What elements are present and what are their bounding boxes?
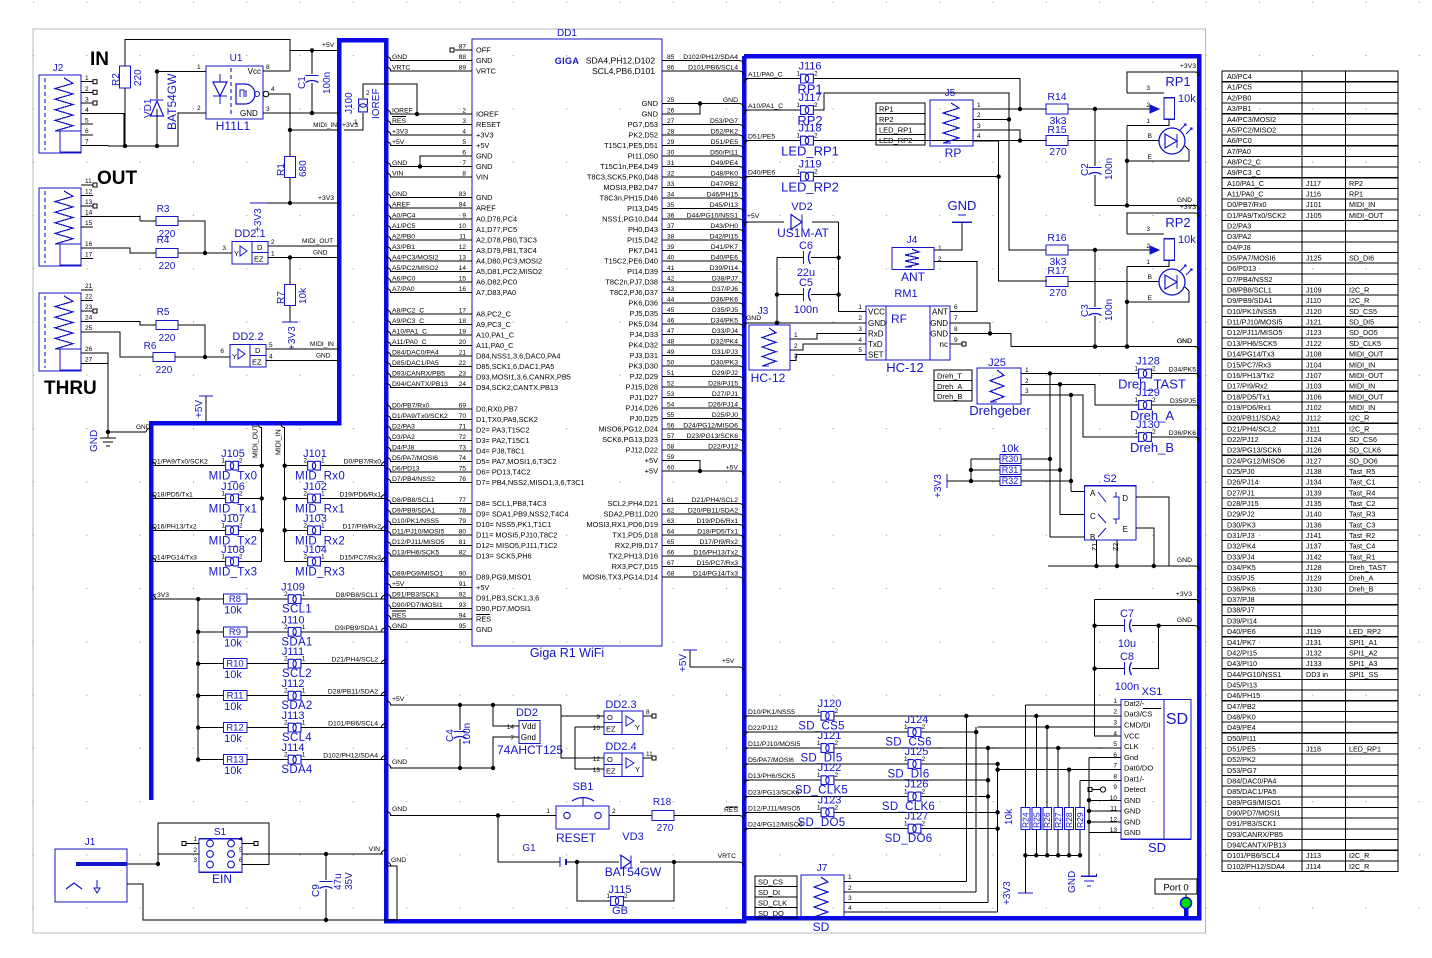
svg-text:T15C2,PE6,D40: T15C2,PE6,D40 bbox=[604, 257, 658, 266]
svg-text:Detect: Detect bbox=[1124, 785, 1147, 794]
svg-text:A0,D76,PC4: A0,D76,PC4 bbox=[476, 215, 517, 224]
svg-text:NSS1,PG10,D44: NSS1,PG10,D44 bbox=[602, 215, 658, 224]
svg-text:3: 3 bbox=[1113, 720, 1117, 727]
U1 pin4 wire bbox=[263, 91, 269, 97]
svg-text:C9: C9 bbox=[311, 884, 322, 897]
svg-text:D42/PI15: D42/PI15 bbox=[1227, 648, 1257, 657]
svg-text:56: 56 bbox=[667, 423, 675, 430]
svg-text:J4: J4 bbox=[907, 235, 918, 246]
svg-text:14: 14 bbox=[85, 209, 93, 216]
svg-text:D84,NSS1,3,6,DAC0,PA4: D84,NSS1,3,6,DAC0,PA4 bbox=[476, 352, 561, 361]
svg-text:D43/PI10: D43/PI10 bbox=[1227, 659, 1257, 668]
svg-text:R9: R9 bbox=[229, 627, 241, 638]
svg-text:A9/PC3_C: A9/PC3_C bbox=[1227, 168, 1261, 177]
svg-text:4: 4 bbox=[239, 836, 243, 843]
svg-text:D14/PG14/Tx3: D14/PG14/Tx3 bbox=[1227, 350, 1275, 359]
svg-text:D12/PJ11/MISO5: D12/PJ11/MISO5 bbox=[1227, 328, 1282, 337]
svg-text:EZ: EZ bbox=[252, 358, 262, 367]
+3V3 symbol bbox=[250, 202, 267, 204]
DD2.4 wires bbox=[561, 716, 604, 758]
svg-text:10k: 10k bbox=[298, 287, 309, 304]
svg-text:PJ5,D35: PJ5,D35 bbox=[630, 309, 658, 318]
DD1 pin 80 D11= MOSI5,PJ10,T8C2 bbox=[390, 534, 472, 536]
svg-text:44: 44 bbox=[667, 297, 675, 304]
svg-text:78: 78 bbox=[459, 508, 467, 515]
svg-text:14: 14 bbox=[459, 265, 467, 272]
svg-text:D1,TX0,PA9,SCK2: D1,TX0,PA9,SCK2 bbox=[476, 415, 538, 424]
svg-text:GND: GND bbox=[1067, 871, 1078, 893]
LED LED2 cathode wire bbox=[1127, 287, 1189, 302]
svg-text:D30/PK3: D30/PK3 bbox=[1227, 520, 1256, 529]
svg-text:J106: J106 bbox=[1306, 392, 1322, 401]
svg-text:D45/PI13: D45/PI13 bbox=[1227, 680, 1257, 689]
svg-text:2: 2 bbox=[1146, 243, 1150, 250]
svg-text:MIDI_IN: MIDI_IN bbox=[310, 341, 334, 348]
jumper J101 MID_Rx0 bbox=[308, 461, 316, 470]
jumper J123 SD_DO5 bbox=[744, 812, 749, 816]
svg-text:R31: R31 bbox=[1002, 465, 1019, 475]
svg-text:T15C1,PE5,D51: T15C1,PE5,D51 bbox=[604, 141, 658, 150]
svg-text:25: 25 bbox=[667, 97, 675, 104]
svg-text:Gnd: Gnd bbox=[1124, 753, 1138, 762]
GND net RF bbox=[744, 323, 749, 327]
svg-text:GND: GND bbox=[136, 424, 151, 431]
Port 0 label bbox=[1155, 879, 1197, 894]
svg-text:PK3,D30: PK3,D30 bbox=[628, 362, 658, 371]
svg-text:J3: J3 bbox=[758, 306, 769, 317]
svg-text:3: 3 bbox=[266, 106, 270, 113]
svg-text:45: 45 bbox=[667, 307, 675, 314]
svg-text:9: 9 bbox=[1113, 784, 1117, 791]
svg-text:J109: J109 bbox=[281, 582, 305, 594]
svg-text:Y: Y bbox=[635, 723, 640, 732]
diode VD1 BAT54GW bbox=[151, 101, 164, 116]
svg-text:IOREF: IOREF bbox=[476, 110, 499, 119]
svg-text:+5V: +5V bbox=[392, 696, 405, 703]
svg-text:A10/PA1_C: A10/PA1_C bbox=[1227, 179, 1264, 188]
svg-text:D94,SCK2,CANTX,PB13: D94,SCK2,CANTX,PB13 bbox=[476, 383, 558, 392]
svg-text:4: 4 bbox=[1113, 730, 1117, 737]
DD1 pin 13 A4,D80,PC3,MOSI2 bbox=[390, 260, 472, 262]
wire R14 out RP2 bbox=[1068, 249, 1157, 251]
DD1 pin 22 D85,SCK1,6,DAC1,PA5 bbox=[390, 366, 472, 368]
svg-text:T8C3n,PH15,D46: T8C3n,PH15,D46 bbox=[600, 194, 658, 203]
svg-text:C: C bbox=[1090, 512, 1096, 521]
svg-text:2: 2 bbox=[462, 108, 466, 115]
svg-text:PJ12,D22: PJ12,D22 bbox=[626, 446, 658, 455]
wire R14 out RP1 bbox=[1068, 108, 1157, 110]
svg-text:4: 4 bbox=[85, 107, 89, 114]
svg-text:T8C3,SCK5,PK0,D48: T8C3,SCK5,PK0,D48 bbox=[587, 173, 658, 182]
svg-text:ANT: ANT bbox=[932, 308, 948, 317]
DD1 pin 10 A1,D77,PC5 bbox=[390, 229, 472, 231]
svg-text:+5V: +5V bbox=[476, 583, 489, 592]
+5V rail for DD2 bbox=[390, 704, 561, 706]
svg-text:GND: GND bbox=[89, 430, 100, 452]
svg-text:D19/PD6/Rx1: D19/PD6/Rx1 bbox=[339, 491, 381, 498]
svg-text:J127: J127 bbox=[905, 811, 929, 823]
svg-text:AREF: AREF bbox=[392, 202, 410, 209]
svg-text:D90/PD7/MOSI1: D90/PD7/MOSI1 bbox=[392, 602, 443, 609]
svg-text:28: 28 bbox=[667, 129, 675, 136]
svg-text:D29/PJ2: D29/PJ2 bbox=[1227, 510, 1255, 519]
svg-text:GB: GB bbox=[612, 905, 628, 917]
svg-text:D89,PG9,MISO1: D89,PG9,MISO1 bbox=[476, 573, 531, 582]
svg-text:3: 3 bbox=[977, 123, 981, 130]
svg-text:Dreh_B: Dreh_B bbox=[1349, 584, 1374, 593]
svg-text:SDA4,PH12,D102: SDA4,PH12,D102 bbox=[586, 56, 655, 66]
DD1 pin 95 GND bbox=[390, 629, 472, 631]
svg-text:A5/PC2/MISO2: A5/PC2/MISO2 bbox=[392, 265, 439, 272]
svg-text:RES: RES bbox=[476, 615, 491, 624]
svg-text:94: 94 bbox=[459, 613, 467, 620]
svg-text:SPI1_SS: SPI1_SS bbox=[1349, 670, 1378, 679]
svg-text:J108: J108 bbox=[221, 544, 245, 556]
svg-text:D12/PJ11/MISO5: D12/PJ11/MISO5 bbox=[748, 805, 801, 812]
svg-text:D14/PG14/Tx3: D14/PG14/Tx3 bbox=[152, 555, 197, 562]
svg-text:J2: J2 bbox=[53, 63, 64, 74]
module boundary J100 strip bbox=[339, 38, 386, 43]
wire J2 pin7 bbox=[93, 145, 108, 148]
svg-text:8: 8 bbox=[266, 64, 270, 71]
svg-text:PK5,D34: PK5,D34 bbox=[628, 320, 658, 329]
svg-text:Drehgeber: Drehgeber bbox=[969, 403, 1031, 418]
svg-text:J105: J105 bbox=[221, 448, 245, 460]
svg-text:D4/PJ8: D4/PJ8 bbox=[1227, 243, 1251, 252]
svg-text:J107: J107 bbox=[221, 513, 245, 525]
svg-text:91: 91 bbox=[459, 581, 467, 588]
svg-text:24: 24 bbox=[85, 315, 93, 322]
svg-text:D9/PB9/SDA1: D9/PB9/SDA1 bbox=[392, 508, 435, 515]
DD1 pin 9 A0,D76,PC4 bbox=[390, 218, 472, 220]
svg-text:D4/PJ8: D4/PJ8 bbox=[392, 445, 415, 452]
svg-text:J125: J125 bbox=[905, 746, 929, 758]
svg-text:D11= MOSI5,PJ10,T8C2: D11= MOSI5,PJ10,T8C2 bbox=[476, 531, 557, 540]
svg-text:J126: J126 bbox=[905, 779, 929, 791]
svg-text:SCL4,PB6,D101: SCL4,PB6,D101 bbox=[592, 66, 655, 76]
svg-text:DD2.4: DD2.4 bbox=[605, 741, 636, 753]
svg-text:D25/PJ0: D25/PJ0 bbox=[712, 412, 738, 419]
svg-text:D43/PH0: D43/PH0 bbox=[710, 223, 738, 230]
svg-text:GND: GND bbox=[476, 152, 492, 161]
svg-text:J109: J109 bbox=[1306, 286, 1322, 295]
svg-text:GND: GND bbox=[642, 99, 658, 108]
svg-text:+5V: +5V bbox=[678, 654, 689, 672]
svg-text:8: 8 bbox=[462, 171, 466, 178]
svg-text:MISO6,PG12,D24: MISO6,PG12,D24 bbox=[598, 425, 658, 434]
svg-text:D37/PJ6: D37/PJ6 bbox=[712, 286, 738, 293]
svg-text:D21/PH4/SCL2: D21/PH4/SCL2 bbox=[1227, 424, 1276, 433]
RESET wires bbox=[390, 815, 556, 817]
svg-text:D89/PG9/MISO1: D89/PG9/MISO1 bbox=[1227, 798, 1281, 807]
svg-text:D19/PD6/Rx1: D19/PD6/Rx1 bbox=[1227, 403, 1271, 412]
jumper J114 SDA4 bbox=[288, 755, 296, 764]
svg-text:11: 11 bbox=[85, 178, 92, 185]
svg-text:D11/PJ10/MOSI5: D11/PJ10/MOSI5 bbox=[1227, 318, 1282, 327]
svg-text:R30: R30 bbox=[1002, 454, 1019, 464]
svg-text:MOSI3,RX1,PD6,D19: MOSI3,RX1,PD6,D19 bbox=[587, 520, 658, 529]
svg-text:A7,D83,PA0: A7,D83,PA0 bbox=[476, 288, 516, 297]
svg-text:5: 5 bbox=[239, 847, 243, 854]
svg-text:81: 81 bbox=[459, 539, 467, 546]
J119 wire to R17 bbox=[814, 176, 999, 178]
svg-text:17: 17 bbox=[85, 252, 93, 259]
svg-text:J138: J138 bbox=[1306, 467, 1322, 476]
svg-text:2: 2 bbox=[1146, 102, 1150, 109]
svg-text:10u: 10u bbox=[1118, 638, 1136, 650]
svg-text:D17/PI9/Rx2: D17/PI9/Rx2 bbox=[1227, 382, 1268, 391]
svg-text:+3V3: +3V3 bbox=[476, 131, 493, 140]
svg-text:SD_CS: SD_CS bbox=[758, 878, 783, 887]
resistor R13 10k bbox=[196, 757, 200, 761]
svg-text:SD: SD bbox=[813, 920, 830, 934]
svg-text:220: 220 bbox=[159, 333, 176, 344]
backup branch bbox=[498, 816, 560, 863]
DD1 pin 2 IOREF bbox=[390, 113, 472, 115]
svg-text:D91/PB3/SCK1: D91/PB3/SCK1 bbox=[392, 592, 439, 599]
svg-text:D84/DAC0/PA4: D84/DAC0/PA4 bbox=[392, 350, 439, 357]
svg-text:D46/PH15: D46/PH15 bbox=[707, 192, 739, 199]
svg-text:D32/PK4: D32/PK4 bbox=[1227, 542, 1256, 551]
svg-text:ANT: ANT bbox=[901, 270, 926, 284]
svg-text:J116: J116 bbox=[1306, 189, 1321, 198]
svg-text:J127: J127 bbox=[1306, 456, 1322, 465]
svg-text:MIDI_OUT: MIDI_OUT bbox=[1349, 371, 1384, 380]
svg-text:D12/PJ11/MISO5: D12/PJ11/MISO5 bbox=[392, 539, 445, 546]
resistor R10 10k bbox=[196, 662, 200, 666]
page frame bbox=[33, 29, 1206, 933]
svg-text:87: 87 bbox=[459, 44, 467, 51]
svg-text:49: 49 bbox=[667, 349, 675, 356]
svg-text:GIGA: GIGA bbox=[555, 56, 580, 66]
svg-text:D18/PD5/Tx1: D18/PD5/Tx1 bbox=[1227, 392, 1270, 401]
svg-text:+5V: +5V bbox=[726, 465, 739, 472]
svg-text:GND: GND bbox=[392, 191, 407, 198]
svg-text:10k: 10k bbox=[224, 669, 242, 681]
svg-text:GND: GND bbox=[723, 97, 738, 104]
svg-text:10k: 10k bbox=[224, 605, 242, 617]
svg-text:J118: J118 bbox=[1306, 744, 1321, 753]
DD1 pin 82 D13= SCK5,PH6 bbox=[390, 555, 472, 557]
svg-text:D44/PG10/NSS1: D44/PG10/NSS1 bbox=[687, 213, 739, 220]
svg-text:10k: 10k bbox=[224, 637, 242, 649]
DD1 pin 24 D94,SCK2,CANTX,PB13 bbox=[390, 387, 472, 389]
GND rail for DD2 bbox=[390, 767, 493, 769]
svg-text:IOREF: IOREF bbox=[392, 108, 413, 115]
pot RP2 bottom wire bbox=[1127, 260, 1169, 266]
svg-text:I2C_R: I2C_R bbox=[1349, 862, 1369, 871]
svg-text:R14: R14 bbox=[1047, 91, 1066, 103]
wire R5 out bbox=[178, 325, 205, 355]
svg-text:A4,D80,PC3,MOSI2: A4,D80,PC3,MOSI2 bbox=[476, 257, 542, 266]
svg-text:+3V3: +3V3 bbox=[287, 326, 298, 350]
svg-text:D36/PK6: D36/PK6 bbox=[1169, 430, 1196, 437]
svg-text:D93/CANRX/PB5: D93/CANRX/PB5 bbox=[392, 371, 445, 378]
svg-text:J129: J129 bbox=[1306, 574, 1322, 583]
svg-text:A8/PC2_C: A8/PC2_C bbox=[1227, 157, 1261, 166]
svg-text:A: A bbox=[1090, 489, 1096, 498]
svg-text:EZ: EZ bbox=[606, 725, 616, 734]
svg-text:A8/PC2_C: A8/PC2_C bbox=[392, 308, 424, 315]
+3V3 rail RP2 bbox=[1127, 213, 1195, 234]
svg-text:A10/PA1_C: A10/PA1_C bbox=[392, 329, 427, 336]
svg-text:MIDI_IN: MIDI_IN bbox=[1349, 382, 1375, 391]
svg-text:100n: 100n bbox=[1104, 299, 1115, 321]
svg-text:D22/PJ12: D22/PJ12 bbox=[748, 725, 778, 732]
wire R3 to DD2.1 bbox=[178, 221, 205, 253]
svg-text:D42/PI15: D42/PI15 bbox=[710, 234, 739, 241]
svg-text:R4: R4 bbox=[157, 235, 170, 246]
svg-text:2: 2 bbox=[1113, 709, 1117, 716]
svg-text:D6/PD13: D6/PD13 bbox=[1227, 264, 1256, 273]
svg-text:D35/PJ5: D35/PJ5 bbox=[1170, 398, 1196, 405]
DD1 pin 74 D5= PA7,MOSI1,6,T3C2 bbox=[390, 461, 472, 463]
svg-text:19: 19 bbox=[459, 329, 467, 336]
svg-text:D32/PK4: D32/PK4 bbox=[711, 339, 738, 346]
svg-text:31: 31 bbox=[667, 160, 675, 167]
svg-text:3: 3 bbox=[1146, 226, 1150, 233]
svg-text:D5/PA7/MOSI6: D5/PA7/MOSI6 bbox=[392, 455, 438, 462]
svg-text:D20/PB11/SDA2: D20/PB11/SDA2 bbox=[688, 508, 738, 515]
svg-text:GND: GND bbox=[392, 623, 407, 630]
svg-text:21: 21 bbox=[85, 283, 93, 290]
svg-text:65: 65 bbox=[667, 539, 675, 546]
DD1 pin 93 D90,PD7,MOSI1 bbox=[390, 608, 472, 610]
svg-text:J132: J132 bbox=[1306, 648, 1322, 657]
pot RP1 bottom wire bbox=[1127, 119, 1169, 125]
+5V net to border bbox=[690, 666, 740, 668]
svg-text:D23/PG13/SCK6: D23/PG13/SCK6 bbox=[687, 433, 739, 440]
svg-text:D18/PD5/Tx1: D18/PD5/Tx1 bbox=[697, 529, 738, 536]
RP signal table bbox=[876, 103, 925, 145]
svg-text:Tast_R1: Tast_R1 bbox=[1349, 552, 1375, 561]
C5 C6 left wires bbox=[776, 258, 778, 323]
svg-text:SCK6,PG13,D23: SCK6,PG13,D23 bbox=[602, 435, 658, 444]
svg-text:1: 1 bbox=[938, 245, 942, 252]
svg-text:+3V3: +3V3 bbox=[1180, 63, 1196, 70]
svg-text:J108: J108 bbox=[1306, 350, 1322, 359]
svg-text:+3V3: +3V3 bbox=[933, 474, 944, 498]
svg-text:A11/PA0_C: A11/PA0_C bbox=[392, 339, 427, 346]
svg-text:LED_RP2: LED_RP2 bbox=[879, 136, 912, 145]
svg-text:PJ4,D33: PJ4,D33 bbox=[630, 330, 658, 339]
svg-text:R1: R1 bbox=[276, 163, 287, 176]
svg-text:D28/PJ15: D28/PJ15 bbox=[708, 381, 738, 388]
svg-text:R32: R32 bbox=[1002, 476, 1019, 486]
svg-text:PK7,D41: PK7,D41 bbox=[628, 246, 658, 255]
svg-text:A11,PA0_C: A11,PA0_C bbox=[476, 341, 514, 350]
svg-text:SDA2,PB11,D20: SDA2,PB11,D20 bbox=[603, 510, 658, 519]
jumper J118 LED_RP1 bbox=[744, 141, 749, 145]
svg-text:D1/PA9/Tx0/SCK2: D1/PA9/Tx0/SCK2 bbox=[392, 413, 448, 420]
DD1 pin 20 A11,PA0_C bbox=[390, 345, 472, 347]
svg-text:50: 50 bbox=[667, 360, 675, 367]
svg-text:R11: R11 bbox=[227, 691, 244, 702]
svg-text:D91/PB3/SCK1: D91/PB3/SCK1 bbox=[1227, 819, 1277, 828]
jumper J103 MID_Rx2 bbox=[308, 526, 316, 535]
svg-text:A10/PA1_C: A10/PA1_C bbox=[748, 103, 783, 110]
svg-text:D6= PD13,T4C2: D6= PD13,T4C2 bbox=[476, 468, 530, 477]
svg-text:1: 1 bbox=[1113, 698, 1117, 705]
svg-text:D10/PK1/NSS5: D10/PK1/NSS5 bbox=[1227, 307, 1277, 316]
svg-text:D25/PJ0: D25/PJ0 bbox=[1227, 467, 1255, 476]
wire R6 to DD2.2 bbox=[175, 356, 230, 358]
resistor R1 680 bbox=[289, 130, 291, 157]
svg-text:GND: GND bbox=[1177, 617, 1192, 624]
DD1 pin 11 A2,D78,PB0,T3C3 bbox=[390, 239, 472, 241]
svg-text:D0/PB7/Rx0: D0/PB7/Rx0 bbox=[392, 403, 430, 410]
svg-text:+5V: +5V bbox=[392, 139, 405, 146]
svg-text:D15/PC7/Rx3: D15/PC7/Rx3 bbox=[696, 560, 738, 567]
jumper J127 SD_DO6 bbox=[744, 829, 749, 833]
svg-text:5: 5 bbox=[85, 118, 89, 125]
svg-text:U1: U1 bbox=[230, 53, 243, 64]
svg-text:270: 270 bbox=[1049, 146, 1067, 158]
svg-text:D47/PB2: D47/PB2 bbox=[711, 181, 738, 188]
svg-text:I2C_R: I2C_R bbox=[1349, 296, 1369, 305]
svg-text:R26: R26 bbox=[1042, 812, 1052, 828]
wire VD2 to VCC bbox=[839, 222, 866, 312]
svg-text:R8: R8 bbox=[229, 594, 241, 605]
svg-text:J120: J120 bbox=[1306, 307, 1322, 316]
pullup verticals to XS1 rows bbox=[1024, 705, 1026, 808]
svg-text:BAT54GW: BAT54GW bbox=[165, 73, 179, 130]
svg-text:D40/PE6: D40/PE6 bbox=[1227, 627, 1256, 636]
svg-text:D52/PK2: D52/PK2 bbox=[711, 129, 738, 136]
svg-text:36: 36 bbox=[667, 213, 675, 220]
svg-text:54: 54 bbox=[667, 402, 675, 409]
svg-text:35V: 35V bbox=[344, 872, 355, 890]
jumper J128 Dreh_TAST bbox=[1139, 369, 1147, 378]
jumper J102 MID_Rx1 bbox=[308, 494, 316, 503]
svg-text:D53/PG7: D53/PG7 bbox=[1227, 766, 1257, 775]
svg-text:MOSI6,TX3,PG14,D14: MOSI6,TX3,PG14,D14 bbox=[583, 573, 658, 582]
svg-text:D4= PJ8,T8C1: D4= PJ8,T8C1 bbox=[476, 447, 525, 456]
svg-text:12: 12 bbox=[85, 189, 93, 196]
DD1 pin 21 D84,NSS1,3,6,DAC0,PA4 bbox=[390, 355, 472, 357]
SD signal table bbox=[755, 876, 797, 918]
jumper J115 GB bbox=[577, 862, 610, 901]
svg-text:70: 70 bbox=[459, 413, 467, 420]
svg-text:10: 10 bbox=[593, 725, 601, 732]
svg-text:5: 5 bbox=[858, 347, 862, 354]
svg-text:I2C_R: I2C_R bbox=[1349, 414, 1369, 423]
svg-text:J110: J110 bbox=[1306, 296, 1321, 305]
svg-text:D93/CANRX/PB5: D93/CANRX/PB5 bbox=[1227, 830, 1283, 839]
R30-32 right wires bbox=[1021, 458, 1050, 460]
svg-text:12: 12 bbox=[459, 244, 467, 251]
svg-text:J137: J137 bbox=[1306, 542, 1322, 551]
svg-text:I2C_R: I2C_R bbox=[1349, 286, 1369, 295]
svg-text:D: D bbox=[257, 243, 263, 252]
DD1 pin 14 A5,D81,PC2,MISO2 bbox=[390, 271, 472, 273]
svg-text:D101/PB6/SCL4: D101/PB6/SCL4 bbox=[1227, 851, 1280, 860]
svg-text:59: 59 bbox=[667, 454, 675, 461]
J117 wire to R16 bbox=[814, 93, 1046, 250]
svg-text:100n: 100n bbox=[794, 304, 818, 316]
svg-text:26: 26 bbox=[667, 108, 675, 115]
svg-text:VIN: VIN bbox=[392, 171, 403, 178]
svg-text:D29/PJ2: D29/PJ2 bbox=[712, 370, 738, 377]
resistor R7 10k bbox=[289, 258, 291, 286]
svg-text:+5V: +5V bbox=[645, 456, 658, 465]
svg-text:J139: J139 bbox=[1306, 488, 1322, 497]
DD2.1 out wires bbox=[268, 245, 339, 247]
svg-text:66: 66 bbox=[667, 550, 675, 557]
svg-text:J119: J119 bbox=[1306, 627, 1321, 636]
svg-text:MIDI_IN: MIDI_IN bbox=[1349, 200, 1375, 209]
svg-text:100n: 100n bbox=[462, 723, 473, 745]
